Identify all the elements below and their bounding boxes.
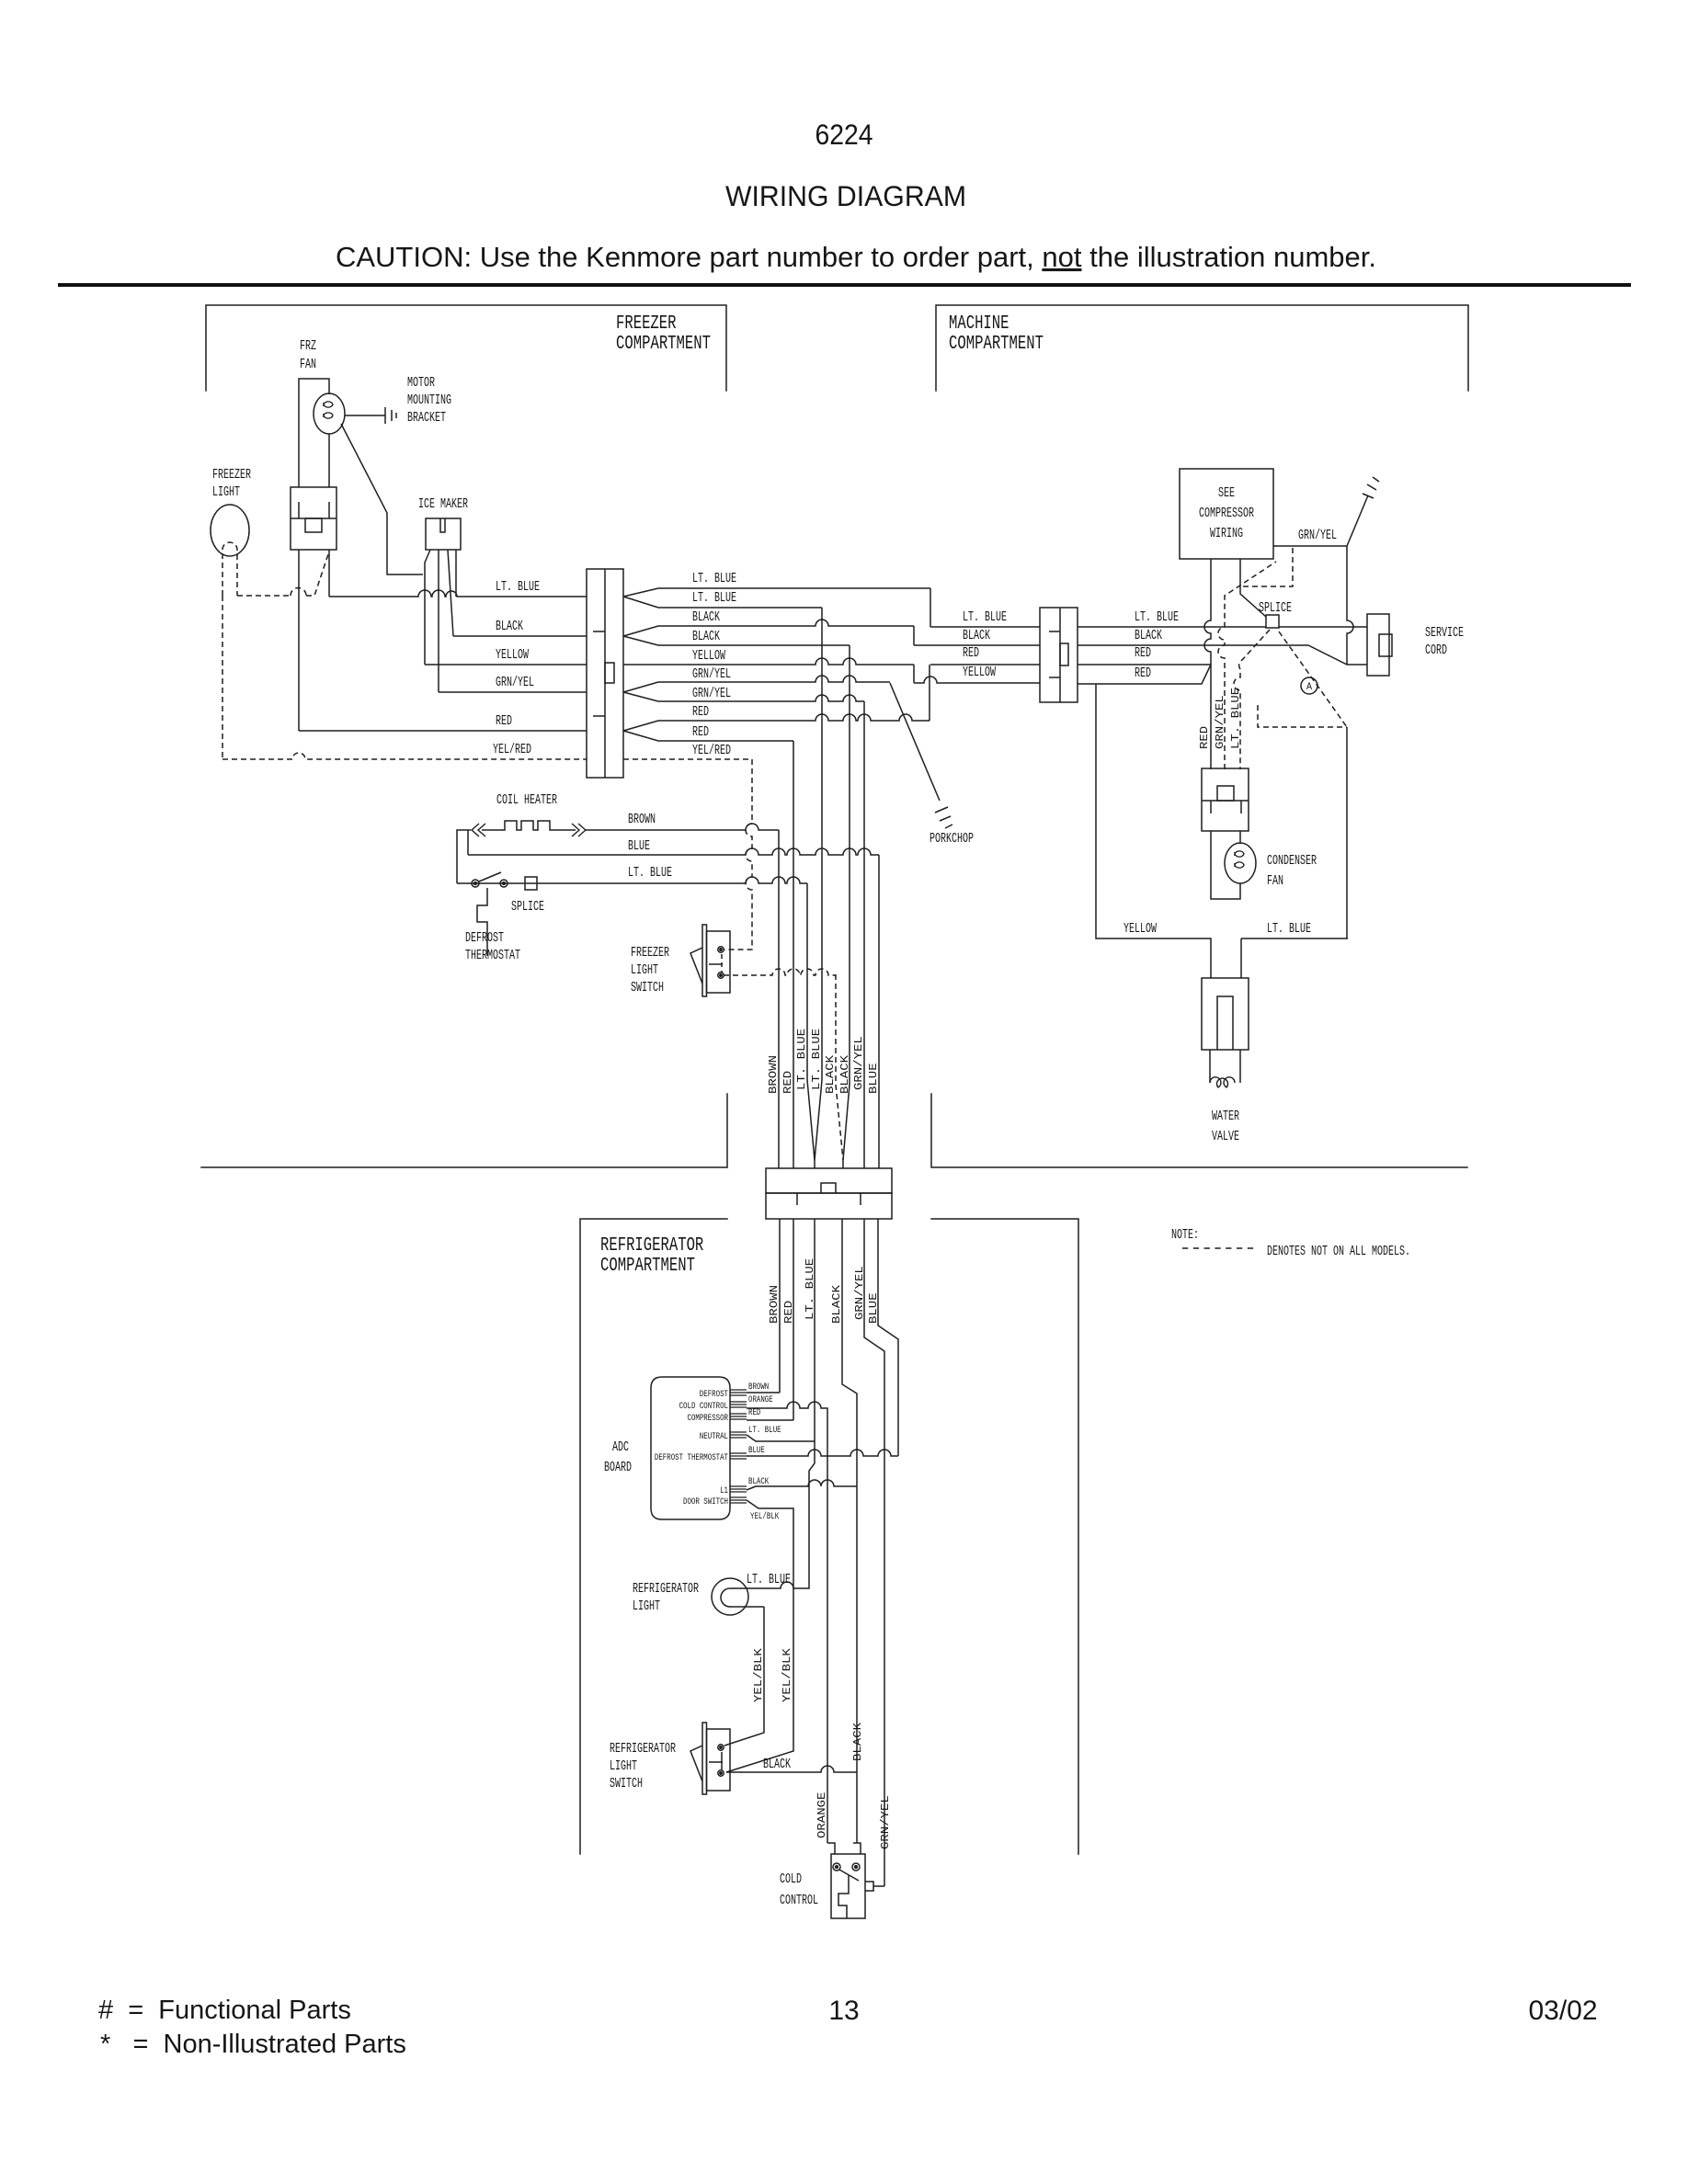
- svg-text:L1: L1: [720, 1485, 728, 1496]
- svg-text:LT. BLUE: LT. BLUE: [747, 1573, 791, 1587]
- svg-text:COMPARTMENT: COMPARTMENT: [949, 334, 1044, 355]
- svg-text:SPLICE: SPLICE: [511, 900, 544, 915]
- svg-text:COLD: COLD: [780, 1872, 802, 1887]
- svg-text:BROWN: BROWN: [768, 1055, 780, 1094]
- svg-text:WIRING: WIRING: [1210, 527, 1243, 541]
- svg-text:PORKCHOP: PORKCHOP: [930, 832, 974, 847]
- svg-text:MACHINE: MACHINE: [949, 313, 1009, 335]
- svg-text:# = Functional Parts: # = Functional Parts: [98, 1996, 351, 2025]
- svg-text:LT. BLUE: LT. BLUE: [628, 866, 672, 881]
- svg-text:REFRIGERATOR: REFRIGERATOR: [633, 1582, 699, 1597]
- svg-text:LT. BLUE: LT. BLUE: [963, 610, 1007, 625]
- svg-text:BROWN: BROWN: [769, 1285, 781, 1324]
- svg-text:RED: RED: [748, 1407, 760, 1418]
- svg-text:RED: RED: [1199, 726, 1211, 749]
- svg-text:RED: RED: [692, 725, 709, 740]
- svg-text:FAN: FAN: [1267, 874, 1283, 889]
- svg-text:BLACK: BLACK: [852, 1723, 864, 1761]
- svg-text:BOARD: BOARD: [604, 1461, 632, 1475]
- svg-text:COLD CONTROL: COLD CONTROL: [679, 1401, 728, 1412]
- svg-text:BROWN: BROWN: [748, 1382, 769, 1393]
- svg-text:YEL/BLK: YEL/BLK: [750, 1511, 780, 1522]
- svg-text:NOTE:: NOTE:: [1171, 1228, 1199, 1243]
- svg-text:RED: RED: [496, 714, 512, 729]
- svg-text:BLUE: BLUE: [748, 1445, 765, 1456]
- svg-text:GRN/YEL: GRN/YEL: [854, 1266, 866, 1320]
- svg-text:ADC: ADC: [612, 1440, 629, 1455]
- svg-text:BLACK: BLACK: [692, 610, 720, 625]
- svg-text:RED: RED: [963, 646, 979, 661]
- svg-text:COIL HEATER: COIL HEATER: [496, 793, 557, 808]
- svg-text:BLACK: BLACK: [839, 1055, 851, 1094]
- svg-text:CONTROL: CONTROL: [780, 1894, 818, 1908]
- svg-text:SEE: SEE: [1218, 486, 1235, 501]
- svg-text:GRN/YEL: GRN/YEL: [496, 676, 534, 690]
- svg-text:FREEZER: FREEZER: [616, 313, 677, 335]
- svg-text:BROWN: BROWN: [628, 813, 656, 827]
- svg-text:GRN/YEL: GRN/YEL: [1298, 529, 1337, 543]
- svg-text:DEFROST: DEFROST: [465, 931, 504, 946]
- svg-text:BLUE: BLUE: [868, 1063, 880, 1094]
- svg-text:YEL/RED: YEL/RED: [692, 744, 731, 758]
- svg-text:REFRIGERATOR: REFRIGERATOR: [600, 1235, 704, 1257]
- svg-text:DOOR SWITCH: DOOR SWITCH: [683, 1496, 728, 1507]
- svg-text:LIGHT: LIGHT: [610, 1759, 637, 1774]
- svg-text:BLACK: BLACK: [831, 1285, 843, 1324]
- svg-text:WIRING DIAGRAM: WIRING DIAGRAM: [725, 179, 966, 212]
- svg-text:RED: RED: [692, 705, 709, 720]
- svg-text:LIGHT: LIGHT: [633, 1599, 660, 1614]
- svg-text:DEFROST THERMOSTAT: DEFROST THERMOSTAT: [655, 1452, 728, 1463]
- svg-text:COMPRESSOR: COMPRESSOR: [688, 1413, 729, 1424]
- svg-text:COMPARTMENT: COMPARTMENT: [616, 334, 711, 355]
- svg-text:6224: 6224: [815, 118, 873, 151]
- svg-text:GRN/YEL: GRN/YEL: [1215, 695, 1226, 749]
- svg-text:CORD: CORD: [1425, 643, 1447, 658]
- svg-text:BLUE: BLUE: [868, 1292, 880, 1324]
- svg-text:BRACKET: BRACKET: [407, 411, 446, 426]
- svg-text:FREEZER: FREEZER: [212, 468, 251, 483]
- svg-text:FREEZER: FREEZER: [631, 946, 669, 961]
- svg-text:DENOTES NOT ON ALL MODELS.: DENOTES NOT ON ALL MODELS.: [1267, 1245, 1410, 1259]
- svg-text:FAN: FAN: [300, 358, 316, 372]
- svg-text:BLACK: BLACK: [825, 1055, 837, 1094]
- svg-text:RED: RED: [1135, 646, 1151, 661]
- svg-text:YELLOW: YELLOW: [692, 649, 725, 664]
- svg-text:BLACK: BLACK: [748, 1476, 770, 1487]
- svg-text:BLACK: BLACK: [963, 629, 990, 643]
- svg-text:LT. BLUE: LT. BLUE: [1230, 688, 1242, 749]
- svg-text:RED: RED: [783, 1301, 795, 1324]
- svg-text:SERVICE: SERVICE: [1425, 626, 1464, 641]
- svg-text:THERMOSTAT: THERMOSTAT: [465, 949, 520, 963]
- svg-text:CAUTION: Use the Kenmore part: CAUTION: Use the Kenmore part number to …: [336, 241, 1376, 273]
- svg-text:LT. BLUE: LT. BLUE: [1135, 610, 1179, 625]
- svg-text:SPLICE: SPLICE: [1259, 601, 1292, 616]
- svg-text:SWITCH: SWITCH: [631, 981, 664, 995]
- svg-text:03/02: 03/02: [1528, 1996, 1597, 2026]
- svg-text:YEL/BLK: YEL/BLK: [781, 1648, 793, 1702]
- svg-text:LT. BLUE: LT. BLUE: [748, 1425, 781, 1436]
- svg-text:GRN/YEL: GRN/YEL: [880, 1795, 892, 1849]
- svg-text:NEUTRAL: NEUTRAL: [700, 1431, 728, 1442]
- svg-text:YEL/RED: YEL/RED: [493, 743, 531, 757]
- svg-text:GRN/YEL: GRN/YEL: [853, 1036, 865, 1090]
- svg-text:YELLOW: YELLOW: [963, 665, 996, 680]
- svg-text:RED: RED: [1135, 666, 1151, 681]
- svg-text:BLACK: BLACK: [496, 620, 523, 634]
- svg-text:LIGHT: LIGHT: [212, 485, 240, 500]
- svg-text:ICE MAKER: ICE MAKER: [418, 497, 468, 512]
- svg-text:REFRIGERATOR: REFRIGERATOR: [610, 1742, 676, 1757]
- svg-text:BLACK: BLACK: [692, 630, 720, 644]
- svg-text:LT. BLUE: LT. BLUE: [692, 591, 736, 606]
- svg-text:MOUNTING: MOUNTING: [407, 393, 451, 408]
- svg-text:LT. BLUE: LT. BLUE: [692, 572, 736, 586]
- svg-text:MOTOR: MOTOR: [407, 376, 435, 391]
- svg-text:A: A: [1306, 682, 1312, 693]
- svg-text:LT. BLUE: LT. BLUE: [496, 580, 540, 595]
- svg-text:GRN/YEL: GRN/YEL: [692, 687, 731, 701]
- svg-text:GRN/YEL: GRN/YEL: [692, 667, 731, 682]
- svg-text:LT. BLUE: LT. BLUE: [796, 1029, 808, 1090]
- svg-text:FRZ: FRZ: [300, 339, 316, 354]
- svg-text:YEL/BLK: YEL/BLK: [753, 1648, 765, 1702]
- svg-text:COMPRESSOR: COMPRESSOR: [1199, 506, 1254, 521]
- svg-text:COMPARTMENT: COMPARTMENT: [600, 1256, 695, 1277]
- svg-text:YELLOW: YELLOW: [1123, 922, 1157, 937]
- svg-text:LT. BLUE: LT. BLUE: [811, 1029, 823, 1090]
- svg-text:LT. BLUE: LT. BLUE: [1267, 922, 1311, 937]
- svg-text:ORANGE: ORANGE: [816, 1792, 828, 1838]
- svg-text:13: 13: [828, 1996, 859, 2026]
- svg-text:YELLOW: YELLOW: [496, 648, 529, 663]
- svg-text:VALVE: VALVE: [1212, 1130, 1239, 1144]
- svg-text:CONDENSER: CONDENSER: [1267, 854, 1317, 869]
- svg-text:* = Non-Illustrated Parts: * = Non-Illustrated Parts: [100, 2030, 406, 2059]
- svg-text:LT. BLUE: LT. BLUE: [804, 1258, 816, 1320]
- svg-text:ORANGE: ORANGE: [748, 1394, 773, 1405]
- svg-text:SWITCH: SWITCH: [610, 1777, 643, 1792]
- svg-text:BLUE: BLUE: [628, 839, 650, 854]
- svg-text:RED: RED: [782, 1071, 794, 1094]
- svg-text:WATER: WATER: [1212, 1109, 1239, 1124]
- svg-text:DEFROST: DEFROST: [700, 1389, 728, 1400]
- svg-text:BLACK: BLACK: [763, 1757, 791, 1772]
- svg-text:BLACK: BLACK: [1135, 629, 1162, 643]
- svg-text:LIGHT: LIGHT: [631, 963, 658, 978]
